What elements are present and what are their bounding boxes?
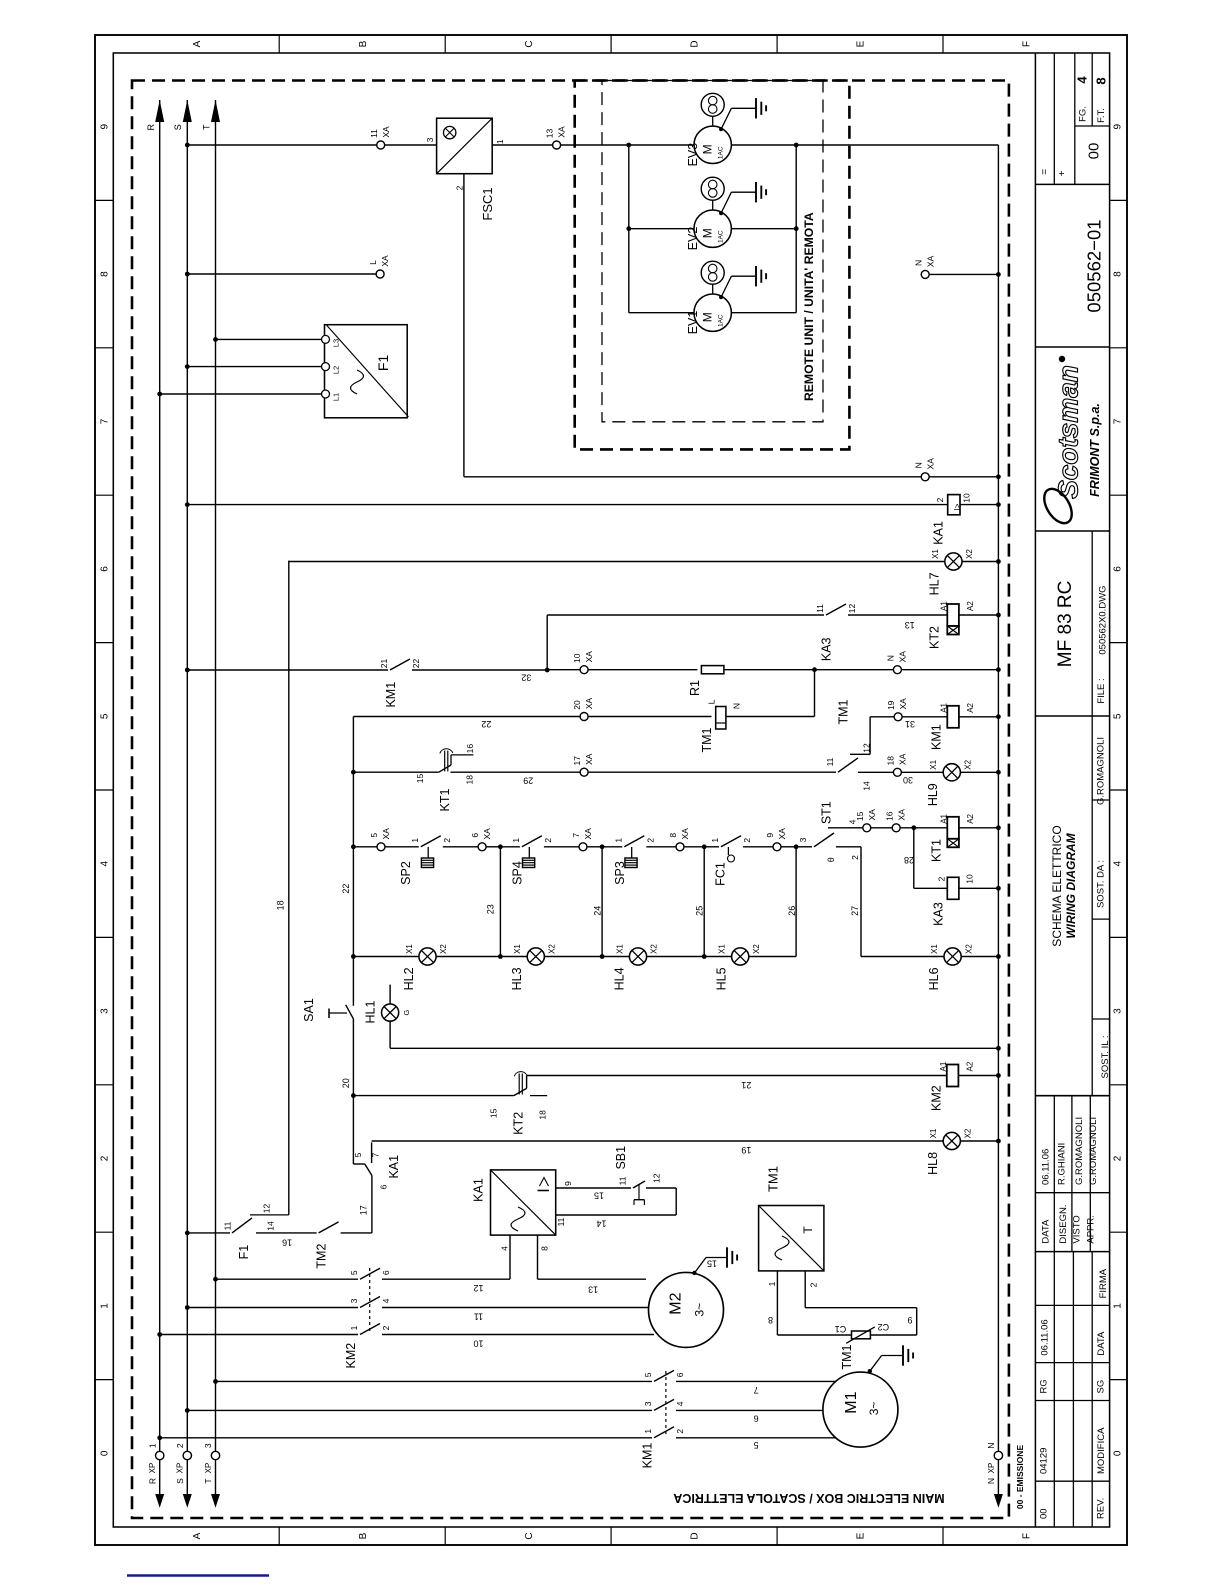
svg-text:4: 4 bbox=[100, 860, 111, 866]
svg-text:3: 3 bbox=[798, 837, 808, 842]
svg-text:22: 22 bbox=[411, 659, 421, 669]
svg-text:HL6: HL6 bbox=[927, 967, 941, 990]
contact bbox=[360, 1324, 380, 1335]
svg-text:16: 16 bbox=[884, 811, 894, 821]
svg-text:L1: L1 bbox=[332, 393, 341, 401]
svg-text:HL2: HL2 bbox=[402, 967, 416, 990]
svg-text:20: 20 bbox=[341, 1078, 351, 1088]
net 22 vertical bbox=[352, 717, 354, 1006]
svg-text:XA: XA bbox=[381, 126, 391, 138]
svg-text:15: 15 bbox=[855, 811, 865, 821]
svg-text:16: 16 bbox=[282, 1237, 292, 1247]
svg-text:A1: A1 bbox=[940, 702, 949, 712]
terminal 5 XA bbox=[377, 843, 385, 851]
svg-text:KM1: KM1 bbox=[641, 1443, 655, 1469]
svg-text:A1: A1 bbox=[940, 813, 949, 823]
svg-text:θ: θ bbox=[826, 857, 836, 862]
junction dots on N bus bbox=[996, 272, 1001, 277]
svg-text:TM1: TM1 bbox=[840, 1344, 854, 1369]
ruler tick bbox=[95, 199, 113, 201]
motor M2 bbox=[649, 1272, 724, 1347]
svg-text:4: 4 bbox=[500, 1246, 510, 1251]
lamp HL4 bbox=[629, 948, 646, 965]
svg-text:A: A bbox=[192, 40, 203, 47]
svg-text:N: N bbox=[986, 1478, 996, 1484]
svg-text:7: 7 bbox=[1113, 418, 1124, 424]
svg-text:X2: X2 bbox=[752, 944, 761, 954]
svg-text:8: 8 bbox=[668, 833, 678, 838]
svg-text:B: B bbox=[358, 1532, 369, 1539]
lamp HL9 bbox=[943, 764, 960, 781]
ground bbox=[755, 182, 757, 202]
svg-text:SP4: SP4 bbox=[511, 861, 525, 885]
svg-text:KA1: KA1 bbox=[932, 521, 946, 545]
terminal 19 XA bbox=[894, 713, 902, 721]
F1 thermal changeover 11-12-14 bbox=[232, 1218, 252, 1233]
svg-text:4: 4 bbox=[675, 1401, 685, 1406]
svg-text:A2: A2 bbox=[966, 702, 975, 712]
svg-text:15: 15 bbox=[594, 1190, 604, 1200]
svg-text:4: 4 bbox=[381, 1298, 391, 1303]
push button SB1 bbox=[633, 1181, 645, 1188]
svg-text:16: 16 bbox=[465, 744, 475, 754]
contact bbox=[319, 1222, 339, 1233]
coil KM1 bbox=[947, 706, 959, 728]
title block grid bbox=[1034, 53, 1036, 1527]
svg-text:VISTO: VISTO bbox=[1071, 1215, 1082, 1243]
coil KT1 bbox=[947, 817, 959, 839]
KA1 changeover contact 5-6-7 bbox=[353, 1163, 364, 1165]
svg-text:1: 1 bbox=[767, 1281, 777, 1286]
ruler tick bbox=[610, 35, 612, 53]
svg-text:8: 8 bbox=[1113, 271, 1124, 277]
svg-text:XA: XA bbox=[925, 255, 935, 267]
svg-text:A2: A2 bbox=[966, 601, 975, 611]
solenoid valve unit EV1 bbox=[701, 261, 724, 284]
svg-text:EV3: EV3 bbox=[686, 143, 700, 167]
pressure switch SP4 bbox=[500, 846, 520, 848]
svg-text:3: 3 bbox=[425, 137, 435, 142]
svg-text:6: 6 bbox=[100, 566, 111, 572]
svg-text:12: 12 bbox=[862, 743, 872, 753]
svg-text:T: T bbox=[202, 124, 212, 130]
ground bbox=[726, 1247, 728, 1267]
svg-text:06.11.06: 06.11.06 bbox=[1040, 1319, 1051, 1355]
transformer TM1 bbox=[759, 1206, 824, 1271]
svg-text:2: 2 bbox=[100, 1155, 111, 1161]
lamp HL8 bbox=[943, 1132, 960, 1149]
remote unit outer dashed box bbox=[575, 81, 850, 450]
wire up to KA3 contact row bbox=[546, 615, 548, 670]
thermostat ST1 changeover bbox=[796, 846, 812, 848]
svg-text:G.ROMAGNOLI: G.ROMAGNOLI bbox=[1074, 1117, 1085, 1185]
ruler tick bbox=[95, 1231, 113, 1233]
svg-text:KM1: KM1 bbox=[384, 682, 398, 708]
svg-text:KA1: KA1 bbox=[387, 1155, 401, 1179]
row: R1 resistor / N bbox=[547, 669, 697, 671]
svg-text:10: 10 bbox=[473, 1338, 483, 1348]
svg-text:C: C bbox=[524, 40, 535, 47]
svg-text:XA: XA bbox=[380, 255, 390, 267]
svg-text:F1: F1 bbox=[375, 355, 391, 372]
phase rail R bbox=[159, 100, 161, 1494]
svg-text:2: 2 bbox=[175, 1443, 185, 1448]
svg-text:XP: XP bbox=[148, 1463, 157, 1474]
svg-text:1: 1 bbox=[613, 838, 623, 843]
svg-text:MODIFICA: MODIFICA bbox=[1096, 1427, 1107, 1474]
solenoid valve unit EV3 bbox=[701, 93, 724, 116]
svg-text:18: 18 bbox=[276, 900, 286, 910]
ruler tick bbox=[942, 35, 944, 53]
svg-text:19: 19 bbox=[886, 700, 896, 710]
svg-text:2: 2 bbox=[543, 838, 553, 843]
svg-text:13: 13 bbox=[545, 129, 555, 139]
svg-text:00 - EMISSIONE: 00 - EMISSIONE bbox=[1015, 1445, 1025, 1510]
svg-text:X1: X1 bbox=[513, 944, 522, 954]
svg-text:M1: M1 bbox=[843, 1391, 860, 1413]
terminal 6 XA bbox=[478, 843, 486, 851]
svg-text:8: 8 bbox=[768, 1315, 773, 1325]
svg-text:6: 6 bbox=[470, 833, 480, 838]
svg-text:M2: M2 bbox=[668, 1292, 685, 1314]
flow switch FC1 bbox=[704, 846, 719, 848]
svg-text:32: 32 bbox=[521, 672, 531, 682]
svg-text:D: D bbox=[690, 40, 701, 47]
wire 28 and KA3 contact 2-10 bbox=[913, 828, 915, 889]
svg-text:12: 12 bbox=[473, 1283, 483, 1293]
terminal 17 XA bbox=[580, 768, 588, 776]
svg-text:X1: X1 bbox=[929, 1128, 938, 1138]
svg-text:11: 11 bbox=[825, 757, 835, 766]
svg-text:DATA: DATA bbox=[1041, 1219, 1052, 1244]
svg-text:3~: 3~ bbox=[693, 1303, 707, 1317]
svg-text:11: 11 bbox=[617, 1176, 627, 1185]
fuse block F1 bbox=[325, 325, 408, 418]
svg-text:C1: C1 bbox=[835, 1324, 847, 1334]
svg-text:6: 6 bbox=[381, 1270, 391, 1275]
svg-text:5: 5 bbox=[369, 833, 379, 838]
svg-text:F: F bbox=[1022, 1533, 1033, 1539]
terminal 18 XA bbox=[893, 768, 901, 776]
svg-text:1AC: 1AC bbox=[717, 314, 724, 327]
svg-text:XP: XP bbox=[987, 1463, 996, 1474]
svg-text:SG: SG bbox=[1095, 1380, 1106, 1394]
svg-text:10: 10 bbox=[965, 874, 975, 884]
svg-text:=: = bbox=[1040, 169, 1051, 175]
svg-text:T: T bbox=[203, 1478, 213, 1483]
svg-text:MF 83 RC: MF 83 RC bbox=[1055, 581, 1076, 668]
svg-text:8: 8 bbox=[539, 1246, 549, 1251]
terminal 15 XA bbox=[863, 824, 871, 832]
svg-text:23: 23 bbox=[485, 904, 495, 914]
terminal 10 XA bbox=[580, 666, 588, 674]
svg-text:1: 1 bbox=[643, 1429, 653, 1434]
svg-text:1: 1 bbox=[710, 838, 720, 843]
wire FSC1 pin2 down bbox=[463, 174, 465, 477]
contact bbox=[654, 1427, 674, 1438]
KT2 timer contact bbox=[353, 1095, 513, 1097]
svg-text:XA: XA bbox=[896, 809, 906, 821]
svg-text:11: 11 bbox=[556, 1217, 566, 1226]
terminal 8 XA bbox=[676, 843, 684, 851]
svg-text:050562X0.DWG: 050562X0.DWG bbox=[1098, 585, 1109, 654]
terminal N XA bbox=[893, 666, 901, 674]
svg-text:26: 26 bbox=[787, 906, 797, 916]
svg-text:RG: RG bbox=[1038, 1379, 1049, 1393]
svg-text:HL3: HL3 bbox=[510, 967, 524, 990]
svg-text:1AC: 1AC bbox=[717, 146, 724, 159]
svg-text:7: 7 bbox=[754, 1385, 759, 1395]
sheet inner frame bbox=[113, 53, 1109, 1527]
main electric box dashed border bbox=[132, 81, 1009, 1519]
svg-text:XA: XA bbox=[898, 698, 908, 710]
svg-text:REV.: REV. bbox=[1095, 1498, 1106, 1519]
svg-text:10: 10 bbox=[962, 493, 972, 503]
svg-text:X2: X2 bbox=[548, 944, 557, 954]
svg-text:KM2: KM2 bbox=[344, 1343, 358, 1369]
resistor R1 bbox=[701, 666, 724, 674]
svg-text:21: 21 bbox=[741, 1080, 751, 1090]
KA1 current relay module bbox=[491, 1170, 556, 1235]
svg-text:WIRING DIAGRAM: WIRING DIAGRAM bbox=[1064, 832, 1078, 938]
svg-text:R1: R1 bbox=[688, 680, 702, 696]
ground of EV1 bbox=[719, 295, 723, 299]
lamp row wires bbox=[353, 956, 419, 958]
svg-text:A1: A1 bbox=[939, 1061, 948, 1071]
svg-text:TM1: TM1 bbox=[700, 727, 714, 752]
svg-text:APPR.: APPR. bbox=[1086, 1215, 1097, 1244]
svg-text:X2: X2 bbox=[439, 944, 448, 954]
svg-text:KA1: KA1 bbox=[472, 1178, 486, 1202]
svg-text:11: 11 bbox=[222, 1221, 232, 1230]
svg-text:FIRMA: FIRMA bbox=[1098, 1268, 1109, 1298]
svg-text:REMOTE UNIT / UNITA' REMOTA: REMOTE UNIT / UNITA' REMOTA bbox=[802, 212, 816, 401]
varistor C1 C2 bbox=[777, 1334, 851, 1336]
svg-text:04129: 04129 bbox=[1038, 1448, 1049, 1474]
svg-text:TM2: TM2 bbox=[315, 1244, 329, 1269]
svg-text:5: 5 bbox=[754, 1440, 759, 1450]
contact bbox=[826, 604, 846, 615]
svg-text:A1: A1 bbox=[940, 601, 949, 611]
svg-text:050562−01: 050562−01 bbox=[1084, 219, 1105, 312]
svg-text:X1: X1 bbox=[615, 944, 624, 954]
terminal 11 XA bbox=[377, 141, 385, 149]
svg-text:3: 3 bbox=[349, 1298, 359, 1303]
wire R to F1 L1 bbox=[160, 393, 322, 395]
contact bbox=[721, 836, 741, 847]
ground of M2 bbox=[692, 1271, 696, 1275]
svg-text:1AC: 1AC bbox=[717, 230, 724, 243]
wire S to FSC1 (11 XA) bbox=[187, 144, 436, 146]
svg-text:1: 1 bbox=[1113, 1303, 1124, 1309]
ruler tick bbox=[278, 35, 280, 53]
svg-text:1: 1 bbox=[511, 838, 521, 843]
svg-text:13: 13 bbox=[588, 1285, 598, 1295]
svg-text:2: 2 bbox=[1113, 1155, 1124, 1161]
lamp HL1 green bbox=[389, 985, 391, 1004]
svg-text:2: 2 bbox=[381, 1325, 391, 1330]
svg-text:M: M bbox=[701, 312, 715, 322]
motor M 1AC EV1 bbox=[694, 294, 731, 331]
lamp HL3 bbox=[527, 948, 544, 965]
svg-text:R: R bbox=[146, 124, 156, 131]
I> symbol bbox=[540, 1178, 549, 1187]
svg-text:29: 29 bbox=[523, 775, 533, 785]
svg-text:MAIN ELECTRIC BOX / SCATOLA EL: MAIN ELECTRIC BOX / SCATOLA ELETTRICA bbox=[673, 1491, 944, 1505]
svg-text:6: 6 bbox=[675, 1372, 685, 1377]
svg-text:HL9: HL9 bbox=[926, 783, 940, 806]
svg-text:X2: X2 bbox=[650, 944, 659, 954]
svg-text:XP: XP bbox=[176, 1463, 185, 1474]
svg-text:KT1: KT1 bbox=[930, 839, 944, 862]
svg-text:X1: X1 bbox=[929, 759, 938, 769]
contact bbox=[522, 836, 542, 847]
svg-text:0: 0 bbox=[1113, 1450, 1124, 1456]
svg-text:5: 5 bbox=[643, 1372, 653, 1377]
svg-text:L3: L3 bbox=[332, 339, 341, 347]
EV return wire right vertical bbox=[795, 145, 797, 313]
svg-text:9: 9 bbox=[907, 1315, 912, 1325]
contact bbox=[360, 1297, 380, 1308]
coil KM2 bbox=[947, 1065, 959, 1087]
svg-text:22: 22 bbox=[341, 884, 351, 894]
motor M 1AC EV3 bbox=[694, 126, 731, 163]
ruler tick bbox=[95, 1084, 113, 1086]
KA1 sensing pins 4-8 bbox=[509, 1235, 511, 1279]
plug XP S bbox=[183, 1451, 191, 1459]
svg-text:4: 4 bbox=[1075, 76, 1090, 84]
svg-text:18: 18 bbox=[886, 756, 896, 766]
svg-text:9: 9 bbox=[100, 123, 111, 129]
svg-text:D: D bbox=[690, 1532, 701, 1539]
svg-text:KT2: KT2 bbox=[512, 1112, 526, 1135]
svg-text:N: N bbox=[986, 1443, 996, 1449]
ruler tick bbox=[444, 35, 446, 53]
wire 19 to HL8 bbox=[372, 1140, 944, 1142]
pressure switch row feed bbox=[353, 846, 377, 848]
svg-text:M: M bbox=[701, 228, 715, 238]
svg-text:M: M bbox=[701, 144, 715, 154]
svg-text:3: 3 bbox=[643, 1401, 653, 1406]
wire 30 to HL9 bbox=[858, 771, 893, 773]
svg-text:S: S bbox=[173, 124, 183, 130]
svg-text:00: 00 bbox=[1085, 143, 1102, 160]
svg-text:SOST. DA :: SOST. DA : bbox=[1095, 860, 1106, 908]
phase rail T bbox=[215, 100, 217, 1494]
svg-text:XA: XA bbox=[482, 828, 492, 840]
svg-text:2: 2 bbox=[809, 1282, 819, 1287]
svg-text:HL1: HL1 bbox=[364, 1000, 378, 1023]
row: ST1-4 to KT1 coil bbox=[848, 827, 863, 829]
svg-text:17: 17 bbox=[572, 756, 582, 766]
ruler tick bbox=[95, 936, 113, 938]
plug XP N bbox=[994, 1451, 1002, 1459]
svg-text:5: 5 bbox=[349, 1270, 359, 1275]
ground bbox=[755, 98, 757, 118]
svg-text:SCHEMA ELETTRICO: SCHEMA ELETTRICO bbox=[1050, 825, 1064, 946]
svg-text:L2: L2 bbox=[332, 366, 341, 374]
wire S to F1 thermal contact bbox=[187, 1232, 230, 1234]
svg-text:17: 17 bbox=[358, 1205, 368, 1215]
wire 21 to KM2 coil bbox=[527, 1075, 947, 1077]
svg-text:1: 1 bbox=[495, 139, 505, 144]
svg-text:9: 9 bbox=[1113, 123, 1124, 129]
net 18 vertical from F1 contact pin 12 bbox=[288, 561, 290, 1215]
svg-text:SOST. IL :: SOST. IL : bbox=[1100, 1036, 1111, 1079]
svg-text:12: 12 bbox=[652, 1173, 662, 1183]
ruler tick bbox=[95, 642, 113, 644]
contact bbox=[360, 1268, 380, 1279]
svg-text:3: 3 bbox=[100, 1008, 111, 1014]
TM1 thermal changeover contact 11-12-14 bbox=[838, 758, 858, 772]
svg-text:3: 3 bbox=[203, 1443, 213, 1448]
svg-text:A: A bbox=[192, 1532, 203, 1539]
svg-text:HL5: HL5 bbox=[715, 967, 729, 990]
svg-text:11: 11 bbox=[815, 604, 825, 613]
svg-text:2: 2 bbox=[442, 838, 452, 843]
svg-text:06.11.06: 06.11.06 bbox=[1041, 1149, 1052, 1185]
terminal 9 XA bbox=[773, 843, 781, 851]
svg-text:00: 00 bbox=[1038, 1508, 1049, 1519]
svg-text:KM1: KM1 bbox=[930, 724, 944, 750]
ground bbox=[902, 1345, 904, 1365]
lamp HL5 bbox=[732, 948, 749, 965]
svg-text:FC1: FC1 bbox=[713, 862, 727, 886]
row: KA1 current relay contact 2-10 bbox=[187, 504, 947, 506]
svg-text:F.T.: F.T. bbox=[1096, 108, 1107, 123]
wire S to F1 L2 bbox=[187, 366, 321, 368]
svg-text:5: 5 bbox=[353, 1152, 363, 1157]
KM2 contactor 3 poles bbox=[216, 1278, 359, 1280]
svg-text:XA: XA bbox=[680, 828, 690, 840]
svg-text:B: B bbox=[358, 40, 369, 47]
svg-text:2: 2 bbox=[454, 185, 464, 190]
svg-text:XA: XA bbox=[867, 809, 877, 821]
svg-text:L: L bbox=[707, 699, 717, 704]
scan artifact blue line at page bottom bbox=[127, 1574, 269, 1576]
svg-text:X1: X1 bbox=[930, 944, 939, 954]
svg-text:DATA: DATA bbox=[1096, 1331, 1107, 1356]
svg-text:HL7: HL7 bbox=[928, 572, 942, 595]
svg-text:15: 15 bbox=[415, 774, 425, 784]
svg-text:7: 7 bbox=[100, 418, 111, 424]
svg-text:X2: X2 bbox=[965, 549, 974, 559]
svg-text:F1: F1 bbox=[237, 1245, 251, 1260]
ground of M1 bbox=[868, 1369, 872, 1373]
svg-text:E: E bbox=[856, 40, 867, 47]
motor M1 bbox=[823, 1372, 898, 1447]
svg-text:3~: 3~ bbox=[867, 1402, 881, 1416]
ruler tick bbox=[776, 35, 778, 53]
svg-text:XA: XA bbox=[584, 698, 594, 710]
svg-text:4: 4 bbox=[1113, 860, 1124, 866]
phase rail S bbox=[186, 100, 188, 1494]
svg-text:XA: XA bbox=[381, 828, 391, 840]
svg-text:SB1: SB1 bbox=[614, 1146, 628, 1170]
svg-text:2: 2 bbox=[935, 497, 945, 502]
svg-text:KT1: KT1 bbox=[438, 788, 452, 811]
svg-text:XA: XA bbox=[898, 753, 908, 765]
EV feed wire left vertical bbox=[628, 145, 630, 313]
svg-text:R: R bbox=[147, 1478, 157, 1484]
svg-text:15: 15 bbox=[707, 1259, 717, 1269]
svg-text:20: 20 bbox=[572, 700, 582, 710]
svg-text:S: S bbox=[175, 1478, 185, 1484]
svg-text:15: 15 bbox=[488, 1108, 498, 1118]
SB1 reset button loop bbox=[556, 1187, 631, 1189]
TM1 timer module L/N bbox=[716, 707, 726, 730]
svg-text:EV1: EV1 bbox=[686, 311, 700, 335]
